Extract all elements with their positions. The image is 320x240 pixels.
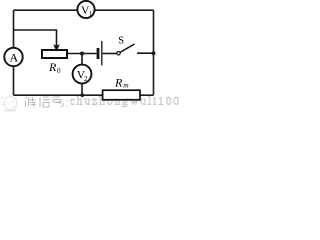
battery [98, 41, 102, 66]
switch S blade [120, 44, 135, 52]
resistor Rm body [103, 90, 140, 100]
wire bottom right [140, 94, 154, 96]
node junction V2 bottom [81, 93, 85, 97]
label R0 [48, 60, 61, 75]
watermark logo [1, 97, 17, 111]
svg-text:0: 0 [57, 67, 61, 75]
wire left (through ammeter) [13, 10, 15, 95]
node junction V2 top [80, 52, 84, 56]
wire middle (rheostat to battery) [68, 53, 97, 55]
wire bottom left [14, 94, 103, 96]
wire right [153, 10, 155, 95]
voltmeter V2 [73, 65, 92, 84]
wire switch to right [137, 52, 154, 54]
rheostat R0 body [42, 50, 67, 58]
wire top [14, 9, 154, 11]
ammeter A [4, 48, 22, 66]
rheostat R0 slider arrow [54, 44, 58, 50]
svg-text:S: S [118, 35, 124, 46]
svg-text:2: 2 [84, 74, 88, 83]
node junction right [152, 51, 156, 55]
watermark text 微信号: [25, 97, 67, 107]
svg-text:A: A [10, 51, 19, 65]
svg-text:1: 1 [89, 9, 93, 18]
voltmeter V1 [77, 1, 94, 18]
svg-text:R: R [48, 60, 57, 74]
svg-text:R: R [114, 75, 123, 89]
wire battery to switch [103, 53, 117, 55]
label Rm [114, 75, 129, 89]
switch S pivot [117, 52, 120, 55]
svg-text:m: m [123, 81, 129, 90]
wire V2 leads [81, 54, 83, 96]
wire slider tap [14, 30, 57, 46]
